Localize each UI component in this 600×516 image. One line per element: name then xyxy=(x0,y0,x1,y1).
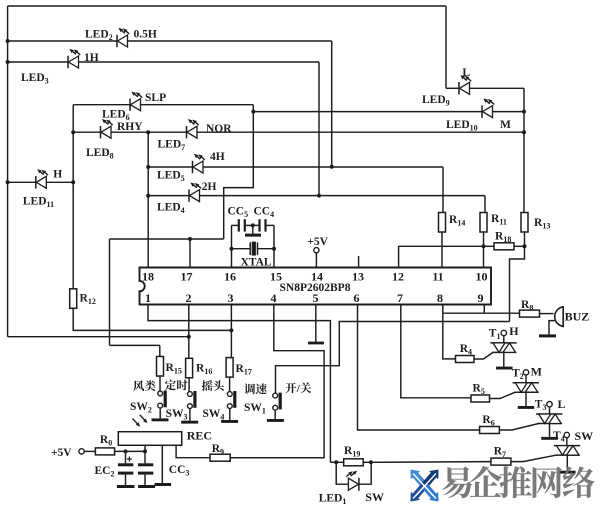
svg-text:LED9: LED9 xyxy=(422,94,450,108)
svg-text:10: 10 xyxy=(476,270,488,284)
wire LED1 branch xyxy=(336,462,371,484)
node left rail pin2 junction xyxy=(187,335,191,339)
wire REC gnd pin xyxy=(161,445,163,483)
wire LED2 row xyxy=(8,40,332,42)
label R11 xyxy=(491,213,507,227)
svg-text:LED8: LED8 xyxy=(86,147,114,161)
ground BUZ xyxy=(539,334,556,337)
ir arrows xyxy=(133,415,148,427)
wire T1 gate xyxy=(474,352,493,359)
svg-text:1H: 1H xyxy=(84,52,99,64)
svg-text:1: 1 xyxy=(145,291,151,305)
wire pin17 horizontal xyxy=(110,238,224,240)
wire SW3 gnd xyxy=(189,409,191,421)
wire rail x109 down xyxy=(109,239,111,345)
label R16 xyxy=(196,363,212,377)
wire rail x148 to pin18 xyxy=(147,132,149,267)
node NOR right xyxy=(522,130,526,134)
wire T3 bottom xyxy=(549,424,551,437)
resistor R16 xyxy=(186,358,193,378)
label R12 xyxy=(80,293,96,307)
wire R12 to pin3 xyxy=(73,308,231,330)
ground EC2 xyxy=(117,485,135,488)
triac T3 xyxy=(536,414,562,424)
LED LED2 xyxy=(117,28,129,47)
resistor R0 xyxy=(95,448,114,455)
terminal H xyxy=(501,330,506,335)
IC U1 SN8P2602BP8 xyxy=(140,268,492,306)
label R13 xyxy=(534,217,550,231)
svg-text:LED1: LED1 xyxy=(319,493,347,507)
node R18 right xyxy=(523,244,527,248)
switch SW1 xyxy=(273,393,282,411)
label R7 xyxy=(494,446,506,460)
node R19 right xyxy=(369,460,373,464)
svg-text:8: 8 xyxy=(437,291,443,305)
svg-text:11: 11 xyxy=(432,270,443,284)
resistor R17 xyxy=(226,358,233,378)
resistor R4 xyxy=(456,356,475,363)
triac T4 xyxy=(554,446,580,456)
label H fan-high xyxy=(53,169,62,181)
node rail148 4H xyxy=(146,165,150,169)
label REC xyxy=(187,429,212,443)
label LED4 xyxy=(157,202,185,216)
wire pin17 drop xyxy=(189,239,191,268)
label LED11 xyxy=(23,196,54,210)
label LED10 xyxy=(446,119,478,133)
node RHY-NOR mid xyxy=(146,130,150,134)
capacitor EC2 xyxy=(118,451,133,485)
label SW1 xyxy=(244,402,266,416)
wire LED2 drop xyxy=(331,41,333,167)
terminal bar T4 xyxy=(559,471,576,474)
resistor R6 xyxy=(480,427,500,434)
resistor R11 xyxy=(480,213,487,233)
label +5V left xyxy=(51,447,72,459)
svg-text:RHY: RHY xyxy=(117,121,143,133)
ground SW2 xyxy=(152,418,169,421)
capacitor CC3 xyxy=(138,451,153,485)
svg-text:16: 16 xyxy=(224,270,236,284)
resistor R5 xyxy=(471,395,490,402)
ground SW3 xyxy=(181,421,198,424)
node rail73 RHY xyxy=(71,130,75,134)
label R8 xyxy=(521,299,533,313)
crystal XTAL xyxy=(250,242,257,256)
wire pin2 drop xyxy=(188,305,190,359)
svg-text:H: H xyxy=(53,169,62,181)
node LED10 right xyxy=(522,110,526,114)
svg-text:LED5: LED5 xyxy=(157,170,185,184)
label 1H xyxy=(84,52,99,64)
wire R18net jog xyxy=(510,246,525,321)
terminal SW xyxy=(564,432,569,437)
label R0 xyxy=(100,434,112,448)
wire pin1net to R19 xyxy=(330,461,343,463)
label LED3 xyxy=(21,72,49,86)
svg-text:3: 3 xyxy=(228,291,234,305)
resistor R7 xyxy=(491,458,511,465)
resistor R12 xyxy=(70,289,77,309)
label BUZ xyxy=(565,310,590,324)
ground pin5 xyxy=(308,342,324,345)
wire cap mid gnd stub xyxy=(252,225,254,233)
wire left rail to pin2 xyxy=(8,336,189,338)
svg-text:LED4: LED4 xyxy=(157,202,185,216)
wire R18 right lead xyxy=(514,245,525,247)
wire pin12 link xyxy=(399,246,484,267)
label L out xyxy=(558,397,566,411)
label M xyxy=(500,119,511,131)
svg-text:BUZ: BUZ xyxy=(565,310,590,324)
svg-text:18: 18 xyxy=(142,270,154,284)
ground CC3 xyxy=(138,485,155,488)
terminal L xyxy=(547,402,552,407)
label LED5 xyxy=(157,170,185,184)
LED LED6 SLP xyxy=(130,92,142,111)
node xtal right xyxy=(272,247,276,251)
wire pin6 net xyxy=(358,305,480,431)
svg-text:2: 2 xyxy=(186,291,192,305)
wire RHY-NOR row xyxy=(73,131,524,133)
svg-text:7: 7 xyxy=(397,291,403,305)
label wind-type xyxy=(133,380,155,391)
wire xtal right rail pin15 xyxy=(273,225,275,267)
LED LED3 xyxy=(68,49,80,68)
label speed xyxy=(244,383,266,394)
label R9 xyxy=(212,443,224,457)
svg-text:LED2: LED2 xyxy=(85,29,113,43)
label R4 xyxy=(460,343,472,357)
svg-text:LED3: LED3 xyxy=(21,72,49,86)
wire 4H row xyxy=(148,167,443,213)
svg-text:SLP: SLP xyxy=(145,92,166,104)
svg-text:+5V: +5V xyxy=(307,236,328,248)
triac T2 xyxy=(513,383,539,393)
terminal bar T1 xyxy=(496,367,513,370)
node rail148 2H xyxy=(146,194,150,198)
svg-text:M: M xyxy=(531,365,542,379)
resistor R13 xyxy=(521,213,528,233)
label LED1 xyxy=(319,493,347,507)
watermark text xyxy=(442,466,595,498)
wire LED9 row xyxy=(446,87,524,89)
label 2H xyxy=(202,181,217,193)
wire SLP left xyxy=(73,104,130,106)
wire LED3 drop xyxy=(318,62,320,196)
resistor R9 xyxy=(210,454,230,461)
svg-text:2H: 2H xyxy=(202,181,217,193)
label NOR xyxy=(206,123,232,135)
label LED9 xyxy=(422,94,450,108)
wire R14 to pin11 xyxy=(441,232,443,268)
wire SLP right xyxy=(141,105,254,112)
label R15 xyxy=(166,362,182,376)
wire R17 to SW4 xyxy=(229,377,231,392)
terminal bar T2 xyxy=(518,406,535,409)
wire rail x73 xyxy=(72,105,74,289)
wire T2 top terminal xyxy=(525,375,527,383)
label SW2 xyxy=(130,401,152,415)
label CC5 xyxy=(228,206,249,220)
wire SLP-LED10 row xyxy=(253,111,524,113)
wire top right drop to LED9 xyxy=(445,6,447,88)
label 4H xyxy=(210,151,225,163)
label LED2 xyxy=(85,29,113,43)
label +5V top xyxy=(307,236,328,248)
label LED8 xyxy=(86,147,114,161)
svg-text:12: 12 xyxy=(392,270,404,284)
wire T3 gate xyxy=(499,424,538,431)
svg-text:REC: REC xyxy=(187,429,212,443)
LED LED5 4H xyxy=(193,154,205,173)
wire T1 bottom xyxy=(503,352,505,366)
node SLP junction xyxy=(251,110,255,114)
label T1 xyxy=(489,328,501,342)
wire T2 bottom xyxy=(525,392,527,406)
wire pin3 drop xyxy=(230,305,232,358)
switch SW2 xyxy=(158,391,167,409)
buzzer BUZ xyxy=(555,307,563,327)
label R17 xyxy=(236,363,252,377)
resistor R8 xyxy=(520,310,540,317)
triac T1 xyxy=(490,343,516,353)
node pin3 junction xyxy=(229,328,233,332)
LED LED9 xyxy=(459,75,471,94)
wire pin7 net xyxy=(401,305,471,398)
wire R9 right xyxy=(230,457,324,459)
label H out xyxy=(509,324,519,338)
LED LED1 xyxy=(346,471,359,491)
wire pin1 net xyxy=(148,305,330,463)
label on-off xyxy=(285,382,311,395)
wire R18net across xyxy=(276,322,510,394)
node EC2 tap xyxy=(124,449,128,453)
node LED11 left xyxy=(6,180,10,184)
label 0.5H xyxy=(134,29,157,41)
label SW4 xyxy=(203,408,225,422)
wire T4 top terminal xyxy=(566,438,568,446)
switch SW4 xyxy=(227,391,236,409)
wire T4 gate xyxy=(511,455,557,462)
capacitor CC4 xyxy=(260,219,266,231)
wire xtal row xyxy=(232,248,275,250)
label XTAL xyxy=(241,257,272,269)
svg-text:SW: SW xyxy=(365,490,384,504)
wire REC vcc pin xyxy=(144,445,146,451)
node CC3 tap xyxy=(143,449,147,453)
wire pin13 stub xyxy=(358,256,360,268)
LED LED4 2H xyxy=(189,182,201,201)
ir-receiver REC box xyxy=(118,432,181,446)
watermark logo xyxy=(411,470,439,502)
LED LED8 RHY xyxy=(101,119,113,138)
wire SW1 gnd xyxy=(274,410,276,419)
terminal +5V left xyxy=(79,449,84,454)
wire SW4 gnd xyxy=(229,409,231,421)
svg-text:L: L xyxy=(558,397,566,411)
svg-text:13: 13 xyxy=(352,270,364,284)
wire T2 gate xyxy=(490,392,516,398)
wire rail x109 to R15 xyxy=(110,345,160,356)
LED LED10 xyxy=(482,98,494,117)
node 2H LED3-drop junction xyxy=(317,194,321,198)
label R5 xyxy=(473,383,485,397)
label SLP xyxy=(145,92,166,104)
terminal +5V top xyxy=(314,248,319,253)
wire pin8 drop xyxy=(443,305,456,359)
svg-text:4: 4 xyxy=(271,291,277,305)
node 4H LED2-drop junction xyxy=(330,165,334,169)
wire R19 to R7 xyxy=(371,461,491,464)
label T3 xyxy=(535,399,547,413)
label M out xyxy=(531,365,542,379)
node LED2 left xyxy=(6,39,10,43)
svg-text:LED7: LED7 xyxy=(158,139,186,153)
ground SW4 xyxy=(221,420,238,423)
wire T3 top terminal xyxy=(549,407,551,414)
label timer xyxy=(165,380,188,391)
label SW out xyxy=(575,429,594,443)
wire +5V to R0 xyxy=(84,450,95,452)
wire LED3 row xyxy=(8,61,319,63)
svg-text:0.5H: 0.5H xyxy=(134,29,157,41)
node cap mid xyxy=(251,223,255,227)
wire +5V pin14 xyxy=(315,253,317,268)
wire top border xyxy=(8,5,446,7)
node pin17 tap xyxy=(188,237,192,241)
LED LED7 NOR xyxy=(187,119,199,138)
wire SW2 gnd xyxy=(159,408,161,418)
node xtal left xyxy=(230,247,234,251)
wire xtal left rail pin16 xyxy=(231,225,233,267)
svg-text:H: H xyxy=(509,324,519,338)
wire cap row xyxy=(232,224,275,226)
wire T4 bottom xyxy=(566,455,568,471)
wire R11 to pin10 xyxy=(483,232,485,268)
ground SW1 xyxy=(267,419,284,422)
wire R13 bottom xyxy=(524,232,526,246)
svg-text:6: 6 xyxy=(354,291,360,305)
label T2 xyxy=(512,368,524,382)
label R14 xyxy=(449,214,465,228)
label EC2 xyxy=(95,465,115,479)
label CC4 xyxy=(254,206,275,220)
wire R8 to BUZ xyxy=(540,313,554,315)
wire BUZ gnd lead xyxy=(549,321,555,335)
svg-text:M: M xyxy=(500,119,511,131)
wire R0 to REC xyxy=(115,450,145,452)
label R18 xyxy=(495,231,511,245)
wire R16 to SW3 xyxy=(188,378,190,392)
resistor R18 xyxy=(494,243,514,250)
node R19 left xyxy=(334,460,338,464)
label L xyxy=(462,67,470,79)
wire T1 top terminal xyxy=(503,336,505,343)
wire 2H row xyxy=(148,196,485,213)
resistor R14 xyxy=(439,213,446,233)
svg-text:L: L xyxy=(462,67,470,79)
node R11-R18 xyxy=(482,244,486,248)
node rail73 LED11 xyxy=(71,180,75,184)
svg-text:SN8P2602BP8: SN8P2602BP8 xyxy=(280,282,351,294)
label RHY xyxy=(117,121,143,133)
svg-text:SW: SW xyxy=(575,429,594,443)
svg-text:9: 9 xyxy=(478,291,484,305)
wire R18 left lead xyxy=(484,245,495,247)
label LED7 xyxy=(158,139,186,153)
svg-text:17: 17 xyxy=(181,270,193,284)
wire left border rail xyxy=(7,6,9,337)
label SW switch xyxy=(365,490,384,504)
label R19 xyxy=(344,445,360,459)
wire pin9 to R8 xyxy=(443,305,520,314)
ground REC xyxy=(155,483,172,486)
resistor R19 xyxy=(344,459,364,466)
wire right rail x524 xyxy=(523,88,525,212)
label CC3 xyxy=(169,464,190,478)
svg-text:+5V: +5V xyxy=(51,447,72,459)
svg-text:LED6: LED6 xyxy=(102,109,130,123)
label LED6 xyxy=(102,109,130,123)
terminal bar T3 xyxy=(541,437,558,440)
wire jog pin17-SLP xyxy=(224,112,254,239)
wire REC out pin xyxy=(176,445,210,457)
resistor R15 xyxy=(157,357,164,377)
label SW3 xyxy=(166,408,188,422)
svg-text:4H: 4H xyxy=(210,151,225,163)
ground cap mid xyxy=(245,234,261,237)
label R6 xyxy=(482,414,494,428)
node LED3 left xyxy=(6,60,10,64)
wire LED11 row xyxy=(8,181,74,183)
LED LED11 xyxy=(36,169,48,188)
terminal M xyxy=(523,370,528,375)
wire pin5 drop xyxy=(315,305,317,342)
wire R15 to SW2 xyxy=(159,376,161,391)
label T4 xyxy=(553,430,565,444)
switch SW3 xyxy=(188,391,197,409)
wire pin4 net xyxy=(230,305,324,458)
svg-text:NOR: NOR xyxy=(206,123,232,135)
capacitor CC5 xyxy=(239,219,245,231)
label oscillate xyxy=(202,380,224,391)
wire R19 right xyxy=(363,461,371,463)
